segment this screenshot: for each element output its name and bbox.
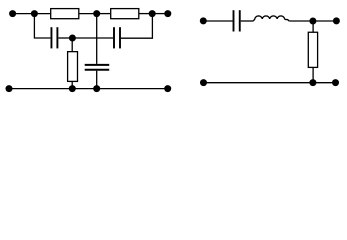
node OUT terminal (top-right)	[164, 10, 171, 17]
wire R4 bottom lead to ground rail	[312, 67, 314, 82]
node OUT2 terminal (top-right of right circuit)	[333, 17, 340, 24]
wire node D to C2 left plate (crosses node B branch without connection)	[72, 37, 113, 39]
node GND2 terminal (bottom-left of right circuit)	[200, 79, 207, 86]
node C junction dot	[149, 10, 156, 17]
node IN terminal (top-left)	[9, 10, 16, 17]
wire node B down to C3 top plate	[96, 14, 98, 64]
wire C2 right plate across and up to node C	[121, 14, 152, 39]
capacitor C2	[114, 27, 120, 48]
resistor R2	[111, 9, 139, 19]
wire L1 to node G	[289, 20, 313, 22]
wire R1 right lead to node B	[79, 13, 96, 15]
wire node G to OUT2 terminal	[313, 20, 337, 22]
resistor R4 (shunt)	[308, 32, 317, 67]
wire R2 right lead to node C	[139, 13, 152, 15]
node A junction dot	[31, 10, 38, 17]
node IN2 terminal (top-left of right circuit)	[200, 17, 207, 24]
wire node C to OUT terminal	[152, 13, 168, 15]
node GND terminal (bottom-left)	[6, 85, 13, 92]
wire C1 right plate to node D	[58, 37, 72, 39]
node GND terminal (bottom-right)	[164, 85, 171, 92]
wire R3 bottom lead to ground rail	[71, 81, 73, 88]
resistor R3 (shunt)	[68, 52, 78, 82]
wire node A to R1 left lead	[34, 13, 50, 15]
node E junction dot (R3 to ground)	[69, 85, 76, 92]
wire bottom ground rail (left circuit)	[9, 88, 168, 90]
node G junction dot	[309, 18, 316, 25]
node D junction dot (C1/C2 junction)	[69, 35, 76, 42]
wire node D down to R3	[71, 38, 73, 52]
wire node G down to R4	[312, 21, 314, 32]
node F junction dot (C3 to ground)	[93, 85, 100, 92]
resistor R1	[51, 9, 79, 19]
wire IN2 terminal to C4 left plate	[203, 20, 232, 22]
wire node A down and across to C1 left plate	[34, 14, 50, 38]
wire node B to R2 left lead	[97, 13, 111, 15]
node H junction dot (R4 to ground)	[309, 79, 316, 86]
wire C3 bottom plate to ground rail	[96, 71, 98, 89]
inductor L1	[253, 16, 289, 21]
capacitor C3 (shunt)	[85, 65, 110, 70]
wire top rail: IN terminal to node A	[13, 13, 35, 15]
capacitor C4	[234, 10, 240, 31]
node B junction dot (R1/R2 junction)	[93, 10, 100, 17]
wire bottom ground rail (right circuit)	[204, 82, 336, 84]
wire C4 right plate to L1	[241, 20, 254, 22]
node GND2 terminal (bottom-right of right circuit)	[332, 79, 339, 86]
capacitor C1	[51, 27, 57, 48]
